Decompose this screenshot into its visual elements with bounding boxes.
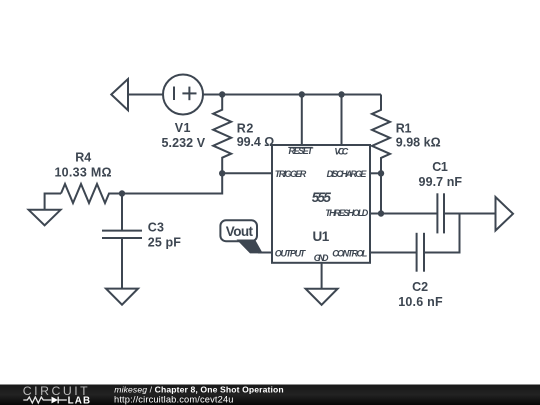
svg-text:5.232 V: 5.232 V [161, 136, 205, 150]
node VCC junction dot [338, 91, 344, 97]
wire RESET branch [301, 95, 303, 146]
pin label GND [314, 253, 329, 263]
wire V1 to node A [203, 94, 222, 96]
wire node B to node C riser [122, 173, 222, 194]
svg-text:THRESHOLD: THRESHOLD [325, 208, 368, 218]
node B junction dot (R4/C3/wire) [119, 190, 125, 196]
svg-text:CONTROL: CONTROL [332, 248, 367, 258]
svg-text:GND: GND [314, 253, 329, 263]
svg-text:U1: U1 [313, 229, 330, 244]
svg-text:R1: R1 [396, 121, 412, 135]
wire R1 bottom down to THRESHOLD node [380, 172, 382, 214]
wire VCC branch [341, 95, 343, 146]
ground (555 GND) [306, 289, 338, 305]
ground (R4 left) [29, 210, 61, 226]
footer bar [0, 385, 540, 405]
svg-text:http://circuitlab.com/cevt24u: http://circuitlab.com/cevt24u [114, 394, 234, 404]
label R4 value [54, 151, 111, 180]
ground (C3 bottom) [106, 289, 138, 305]
capacitor C1 [437, 193, 444, 233]
label V1 value [161, 121, 205, 150]
node C junction dot (R2 bottom) [219, 170, 225, 176]
logo squiggle resistor-diode [23, 397, 67, 404]
node THRESHOLD junction dot [378, 210, 384, 216]
footer title line [114, 385, 283, 395]
resistor R1 [372, 95, 390, 173]
label U1 [313, 229, 330, 244]
wire Vout to OUTPUT pin [258, 252, 272, 254]
svg-text:25 pF: 25 pF [148, 235, 181, 249]
op-amp U1 555 timer box [272, 145, 370, 263]
wire CONTROL to C2 [370, 252, 417, 254]
node Vout flag [220, 220, 262, 253]
svg-text:V1: V1 [175, 121, 191, 135]
footer url line [114, 394, 234, 404]
wire GND pin stem [321, 263, 323, 289]
svg-text:10.33 MΩ: 10.33 MΩ [54, 165, 111, 179]
svg-text:mikeseg / Chapter 8, One Shot: mikeseg / Chapter 8, One Shot Operation [114, 385, 283, 395]
svg-text:R2: R2 [237, 121, 254, 135]
logo CIRCUIT text [23, 384, 90, 398]
svg-text:C1: C1 [432, 160, 448, 174]
pin label OUTPUT [275, 248, 307, 258]
node DISCHARGE junction dot [378, 170, 384, 176]
resistor R4 [61, 184, 122, 203]
svg-text:OUTPUT: OUTPUT [275, 248, 307, 258]
capacitor C2 [417, 233, 424, 272]
pin label RESET [288, 146, 314, 156]
pin label DISCHARGE [327, 169, 368, 179]
wire THRESHOLD to C1 [370, 213, 437, 215]
wire C1 to output port [444, 213, 496, 215]
svg-text:C2: C2 [412, 280, 428, 294]
wire node C to TRIGGER [222, 172, 272, 174]
pin label CONTROL [332, 248, 367, 258]
svg-text:99.7 nF: 99.7 nF [419, 175, 463, 189]
wire DISCHARGE to R1 bottom [370, 172, 381, 174]
svg-text:R4: R4 [75, 151, 91, 165]
svg-text:10.6 nF: 10.6 nF [398, 295, 443, 309]
svg-text:VCC: VCC [334, 146, 348, 156]
label C2 value [398, 280, 443, 309]
node RESET junction dot [299, 91, 305, 97]
label C1 value [419, 160, 463, 189]
wire riser C2 to C1 net [424, 214, 460, 253]
svg-text:Vout: Vout [226, 224, 254, 239]
node A junction dot (V1/R2 top) [219, 91, 225, 97]
pin label THRESHOLD [325, 208, 368, 218]
label R1 value [396, 121, 441, 149]
port flag P2 (right-pointing triangle) [496, 197, 514, 231]
logo LAB text [68, 395, 92, 405]
port flag P1 (left-pointing triangle at V1 minus terminal) [111, 79, 128, 110]
label 555 [312, 190, 332, 205]
label R2 value [237, 121, 275, 149]
wire top rail node A to R1 top [222, 94, 381, 96]
wire R4 left to ground jog [45, 194, 61, 210]
svg-text:LAB: LAB [68, 395, 92, 405]
pin label TRIGGER [275, 169, 307, 179]
capacitor C3 [102, 194, 142, 289]
svg-text:C3: C3 [148, 221, 164, 235]
svg-text:DISCHARGE: DISCHARGE [327, 169, 368, 179]
resistor R2 [213, 95, 231, 173]
label C3 value [148, 221, 181, 250]
svg-text:555: 555 [312, 190, 332, 205]
wire port to V1 [128, 94, 163, 96]
svg-text:9.98 kΩ: 9.98 kΩ [396, 136, 441, 150]
svg-text:99.4 Ω: 99.4 Ω [237, 135, 275, 149]
pin label VCC [334, 146, 348, 156]
svg-text:TRIGGER: TRIGGER [275, 169, 307, 179]
voltage source V1 [163, 75, 203, 115]
